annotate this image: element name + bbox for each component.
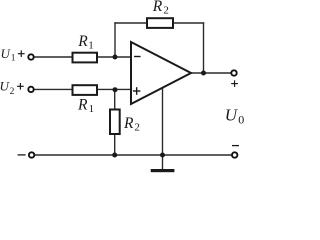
junction node at ground leg on rail: [160, 153, 165, 158]
svg-text:2: 2: [134, 121, 140, 133]
op-amp inverting input minus sign: [134, 56, 141, 58]
resistor R1 (upper, in U1 branch): [73, 53, 98, 63]
wire: feedback top left segment to R2: [114, 22, 147, 24]
junction node at output / feedback: [201, 71, 206, 76]
op-amp non-inverting input plus sign: [133, 87, 141, 95]
terminal U1 + (open circle): [28, 54, 33, 59]
svg-text:2: 2: [163, 5, 169, 17]
wire: bottom common rail: [35, 154, 232, 156]
ground: [151, 169, 175, 172]
terminal U2 + (open circle): [28, 87, 33, 92]
svg-text:2: 2: [10, 87, 15, 97]
wire: non-inverting node down to R2: [114, 89, 116, 109]
polarity - at bottom-left terminal: [18, 154, 26, 156]
resistor R2 (vertical, to ground): [110, 110, 120, 135]
polarity - at bottom-right terminal: [232, 145, 239, 147]
polarity + at U2 terminal: [17, 83, 24, 90]
terminal output + (open circle): [231, 70, 236, 75]
svg-text:R: R: [123, 115, 134, 132]
junction node at R2 bottom on rail: [112, 153, 117, 158]
svg-text:0: 0: [238, 112, 244, 126]
junction node at non-inverting input / R2: [113, 87, 118, 92]
wire: R2 bottom to ground rail: [114, 134, 116, 155]
wire: R1 to inverting input node: [97, 56, 131, 58]
wire: R1 to non-inverting input node: [97, 88, 131, 90]
svg-text:1: 1: [88, 40, 94, 52]
terminal bottom-left - (open circle): [29, 152, 34, 157]
polarity + at U1 terminal: [18, 50, 25, 57]
wire: feedback riser from inverting node up: [114, 22, 116, 57]
svg-text:R: R: [152, 0, 163, 15]
svg-text:1: 1: [11, 54, 16, 64]
terminal output - (open circle): [232, 152, 237, 157]
wire: U2 input from terminal to R1: [34, 88, 72, 90]
svg-text:1: 1: [89, 103, 95, 115]
svg-text:U: U: [225, 105, 239, 124]
junction node at inverting input / feedback: [113, 55, 118, 60]
wire: U1 input from terminal to R1: [34, 56, 72, 58]
op-amp triangle: [131, 42, 191, 104]
resistor R1 (lower, in U2 branch): [73, 85, 98, 95]
wire: feedback down to output node: [203, 22, 205, 73]
resistor R2 (feedback, top): [147, 18, 173, 28]
polarity + at output terminal: [231, 80, 238, 87]
svg-text:R: R: [77, 33, 88, 50]
wire: feedback top right segment from R2: [173, 22, 204, 24]
svg-text:R: R: [77, 96, 88, 113]
wire: op-amp output to + output terminal: [190, 72, 231, 74]
wire: op-amp common leg to ground: [162, 87, 164, 170]
